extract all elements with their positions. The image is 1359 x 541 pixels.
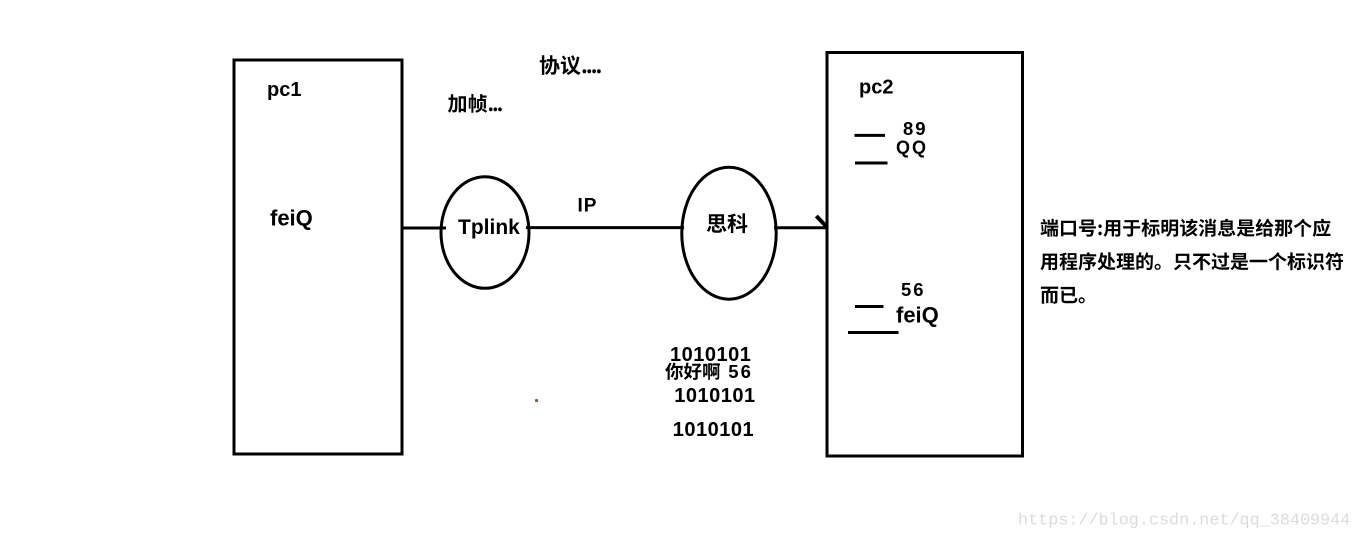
port slot dash for 89	[855, 134, 886, 137]
stray red ink dot	[535, 399, 538, 402]
router 思科 (ellipse node)	[682, 167, 776, 299]
wire pc1 to Tplink	[402, 227, 446, 230]
svg-text:QQ: QQ	[896, 138, 928, 158]
arrowhead barb	[816, 216, 826, 227]
svg-text:feiQ: feiQ	[270, 206, 313, 231]
wire 思科 to pc2 (arrow shaft)	[774, 226, 827, 229]
svg-text:1010101: 1010101	[674, 385, 755, 407]
svg-text:56: 56	[901, 279, 926, 300]
port slot dash for QQ	[855, 162, 888, 165]
port slot dash for 56	[855, 305, 884, 308]
pc2 computer box	[827, 53, 1023, 457]
packet payload 你好啊	[665, 363, 720, 380]
svg-text:pc1: pc1	[267, 79, 301, 101]
pc1 computer box	[234, 60, 402, 454]
annotation 加帧...	[448, 94, 502, 113]
note line 2 用程序处理的。只不过是一个标识符	[1040, 252, 1343, 270]
router Tplink (ellipse node)	[441, 177, 529, 289]
label 思科	[707, 213, 748, 233]
svg-text:89: 89	[903, 118, 928, 139]
svg-text:pc2: pc2	[859, 77, 893, 99]
svg-text:IP: IP	[578, 196, 598, 217]
wire Tplink to 思科 (IP link)	[526, 226, 684, 229]
underline dash below feiQ	[848, 331, 899, 334]
svg-text:1010101: 1010101	[673, 419, 754, 441]
note line 3 而已。	[1041, 287, 1085, 304]
note line 1 端口号:用于标明该消息是给那个应	[1041, 219, 1331, 237]
svg-text:56: 56	[728, 361, 753, 382]
svg-text:https://blog.csdn.net/qq_38409: https://blog.csdn.net/qq_38409944	[1018, 512, 1350, 531]
svg-text:Tplink: Tplink	[458, 216, 520, 239]
annotation 协议....	[540, 55, 601, 75]
svg-text:feiQ: feiQ	[896, 302, 939, 327]
